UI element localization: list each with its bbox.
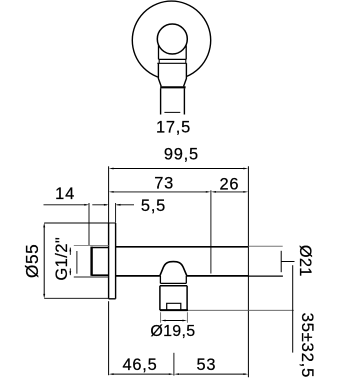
dimension line 17,5 [164,111,180,113]
arrow 73 right [206,191,211,193]
svg-text:G1/2": G1/2" [52,237,71,281]
top view: tapered block [158,63,186,86]
extension line wall face below plate [108,301,110,375]
dimension line 73 [112,191,207,193]
extension line 73/26 boundary [210,190,212,273]
arrow 53 right [243,373,248,375]
svg-text:46,5: 46,5 [122,356,157,374]
tube top edge thin continuation [248,245,282,247]
svg-text:Ø19,5: Ø19,5 [150,323,195,340]
arrow 53 left [174,373,179,375]
arrow 46,5 left [109,373,114,375]
wall plate [109,223,116,299]
dimension line 35 +/- 32,5 [292,265,294,352]
extension line plate front (5,5 right) [115,203,117,223]
extension line inlet end (14 left) [88,203,90,245]
svg-text:26: 26 [219,175,239,193]
outlet collar [160,276,186,284]
svg-text:35±32,5: 35±32,5 [298,313,317,378]
arrow 99,5 right [243,168,248,170]
nozzle rectangle [167,303,181,310]
arrow 19,5 left [161,320,166,322]
arrow G1/2 top [69,248,71,252]
svg-text:99,5: 99,5 [164,146,199,164]
centerline tick at tube axis [281,261,294,263]
arrow 73 left [109,191,114,193]
arrow G1/2 bottom [69,271,71,275]
top view: body white mask over flange [157,44,186,115]
svg-text:17,5: 17,5 [156,119,191,137]
dimension line 99,5 [112,168,245,170]
extension line right reference (long) [247,166,249,377]
tube top edge [116,246,249,248]
dimension line 26 [214,191,245,193]
dimension line diameter 55 [43,227,45,296]
arrow 26 left [211,191,216,193]
arrow 19,5 right [182,320,187,322]
dimension line 14 / 5,5 [44,204,135,206]
wall plate top edge + extension to dim [44,222,115,224]
svg-text:53: 53 [196,356,216,374]
top view: nut band [157,59,186,63]
tube bottom edge right of dome [187,275,249,277]
mouth level extension line to right [188,309,294,311]
dimension line 46,5 / 53 [112,373,246,375]
dimension line 19,5 [165,320,184,322]
top view: ball joint circle [157,24,187,54]
arrow 5,5 right [116,204,121,206]
arrow d55 top [43,223,45,228]
dimension line G1/2 (broken by label) [69,248,71,276]
svg-text:Ø55: Ø55 [22,244,42,278]
dimension line diameter 21 (at tube end) [280,251,282,272]
svg-text:73: 73 [154,175,174,193]
top view: collar below ball [159,46,187,60]
top view: outlet tube sides [161,88,185,114]
outlet dome [160,262,187,276]
extension lines diameter 19,5 [161,312,188,323]
arrow 26 right [243,191,248,193]
top view: thick base edge [160,86,185,88]
tube bottom edge left of dome [116,275,160,277]
outlet cylinder [160,286,187,310]
arrow 99,5 left [109,168,114,170]
inlet thread crest bottom (thin) [74,276,109,278]
arrow 14 left [84,204,89,206]
svg-text:Ø21: Ø21 [296,245,314,277]
arrow d55 bottom [43,294,45,299]
inlet thread end edge (thin) [76,251,78,274]
outlet mouth (thick bottom) [160,309,188,311]
inlet pipe bottom [92,274,109,276]
inlet pipe top [92,247,109,249]
inlet end face (thick bar) [90,247,92,276]
svg-text:5,5: 5,5 [141,197,166,215]
wall plate bottom edge + extension to dim [44,297,108,299]
extension line outlet axis (bottom) [173,353,175,376]
arrow 46,5 right [169,373,174,375]
inlet thread crest top (thin) [74,244,109,246]
arrow 14 right [104,204,109,206]
extension line wall face (left reference) [108,166,110,222]
svg-text:14: 14 [55,185,75,203]
top view: wall flange outer circle [132,1,210,79]
tube bottom edge thin continuation [248,275,283,277]
